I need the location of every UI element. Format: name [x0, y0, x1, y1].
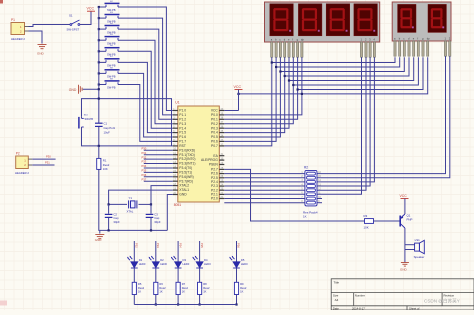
capacitor C1 Cap Pol1: [95, 123, 103, 124]
power ground at crystal circuit: [95, 235, 104, 239]
svg-text:Res2: Res2: [138, 286, 145, 290]
push button S9 SW-PB: [105, 81, 120, 85]
svg-text:P32: P32: [142, 155, 147, 159]
wire button S7 to U1 P1.5: [118, 62, 173, 132]
wire button S6 to U1 P1.4: [118, 51, 173, 128]
svg-text:P31: P31: [45, 161, 50, 165]
wire display1 pin4 to U1 P0.4: [224, 57, 284, 132]
junction RST line at bus: [98, 145, 100, 147]
junction bus at button S4: [98, 28, 100, 30]
display DS1 (4-digit 7-segment) digit 1 digit window: [270, 4, 294, 36]
crystal Y1 XTAL: [129, 200, 137, 208]
power ground at speaker: [401, 263, 409, 267]
svg-text:Res2: Res2: [240, 286, 247, 290]
svg-text:LED0: LED0: [183, 262, 190, 266]
wire RST line to U1 RST pin: [99, 145, 173, 147]
junction bus at GND feed: [98, 88, 100, 90]
wire LED D3 to resistor R7: [177, 268, 179, 282]
wire pack R2 to display1 common 1: [317, 57, 362, 194]
junction bus at button S7: [98, 61, 100, 63]
wire P1 pin1 to switch S1: [29, 25, 71, 27]
svg-text:GND: GND: [69, 88, 77, 92]
svg-text:S1: S1: [69, 14, 73, 18]
svg-text:10uF: 10uF: [104, 130, 111, 134]
svg-text:1K: 1K: [303, 215, 307, 219]
svg-text:LED0: LED0: [160, 262, 167, 266]
svg-text:P3.1(TXD): P3.1(TXD): [179, 153, 195, 157]
wire net stub P35: [144, 171, 173, 173]
svg-text:U1: U1: [175, 101, 179, 105]
junction bus at reset loop top: [98, 98, 100, 100]
wire pack R2 to display1 common 2: [317, 57, 366, 190]
svg-text:P1.5: P1.5: [179, 131, 186, 135]
svg-text:P3.3(INT1): P3.3(INT1): [179, 162, 195, 166]
svg-text:P30: P30: [142, 147, 147, 151]
svg-text:R7: R7: [182, 282, 186, 286]
speaker LS1: [415, 240, 425, 253]
push button S3 SW-PB: [105, 15, 120, 19]
svg-text:P3.0(RXD): P3.0(RXD): [179, 148, 195, 152]
wire crystal right lead: [139, 203, 152, 205]
wire display1 pin5 to U1 P0.3: [224, 57, 289, 128]
svg-text:P1.7: P1.7: [179, 140, 186, 144]
wire branch to display2 pin6: [293, 57, 418, 85]
svg-text:P3.4(T0): P3.4(T0): [179, 166, 192, 170]
wire net stub P37: [144, 180, 173, 182]
svg-text:P33: P33: [142, 160, 147, 164]
wire VCC stem to U1 VCC row: [238, 90, 240, 111]
svg-text:1K: 1K: [240, 289, 243, 293]
svg-text:8051: 8051: [174, 203, 182, 207]
svg-text:R3: R3: [364, 214, 368, 218]
push button S6 SW-PB: [105, 48, 120, 52]
junction display1 pin3 branch: [279, 70, 281, 72]
LED D3: [171, 256, 182, 268]
LED D1: [127, 256, 138, 268]
svg-text:PNP: PNP: [407, 218, 413, 222]
svg-text:1K: 1K: [203, 289, 206, 293]
junction bus at button S6: [98, 50, 100, 52]
junction display1 pin7 branch: [297, 88, 299, 90]
svg-text:XTAL2: XTAL2: [179, 184, 189, 188]
bottom-left pink artifact: [0, 301, 7, 306]
transistor Q1 PNP: [400, 214, 405, 228]
push button S2 SW-PB: [105, 3, 120, 7]
wire resistor R5 to rail: [133, 295, 135, 305]
svg-text:P0.4: P0.4: [211, 131, 218, 135]
wire U1 VCC pin to VCC stem: [224, 110, 238, 112]
P2 pin stubs: [28, 159, 32, 165]
svg-text:GND: GND: [400, 268, 408, 272]
wire branch to display2 pin5: [289, 57, 414, 80]
svg-text:Size: Size: [333, 293, 339, 297]
connector P1: [11, 23, 25, 35]
wire display1 pin2 to U1 P0.6: [224, 57, 276, 141]
U1 pin names: [179, 109, 218, 201]
wire bus to button S6 left: [99, 50, 106, 52]
wire display1 pin1 to U1 P0.7: [224, 57, 271, 146]
svg-text:P2: P2: [16, 151, 20, 155]
wire net stub P36: [144, 176, 173, 178]
wire R1 to ground rail: [99, 169, 100, 230]
wire XTAL1 to crystal left node: [109, 190, 173, 204]
svg-text:P2.0: P2.0: [211, 197, 218, 201]
wire switch S1 to VCC: [80, 11, 91, 24]
svg-text:P1.6: P1.6: [179, 135, 186, 139]
svg-text:SW-SPST: SW-SPST: [67, 28, 80, 32]
svg-text:D4: D4: [204, 258, 208, 262]
svg-text:P33: P33: [156, 243, 160, 248]
svg-text:SW-PB: SW-PB: [85, 117, 94, 121]
P1 pin stubs: [25, 27, 29, 32]
resistor R7 Res2: [176, 282, 180, 294]
wire resistor R6 to rail: [155, 295, 157, 305]
junction bus at button S9: [98, 83, 100, 85]
push button S5 SW-PB: [105, 37, 120, 41]
wire branch to display2 pin3: [280, 57, 404, 71]
wire crystal left lead: [109, 203, 127, 205]
wire GND arrow to bus: [83, 88, 99, 90]
capacitor C3 Cap 30pF: [146, 214, 154, 215]
svg-text:P1.3: P1.3: [179, 122, 186, 126]
svg-text:Revision: Revision: [444, 293, 455, 297]
svg-text:VCC: VCC: [211, 109, 219, 113]
junction crystal left node: [108, 203, 110, 205]
display DS1 (4-digit 7-segment) digit 2 digit window: [298, 4, 322, 36]
svg-text:VCC: VCC: [234, 85, 242, 89]
U1 pin stubs: [173, 111, 225, 199]
wire U1 P2 row to pack R2 pin8: [224, 202, 305, 204]
wire U1 P2 row to pack R2 pin5: [224, 189, 305, 191]
svg-text:P0.2: P0.2: [211, 122, 218, 126]
svg-text:Speaker: Speaker: [414, 255, 425, 259]
switch S1 SW-SPST: [70, 20, 80, 25]
U1 pin numbers: [173, 108, 224, 199]
wire net stub P33: [144, 163, 173, 165]
wire LED common rail: [134, 304, 236, 306]
wire Q1 collector down to ground node: [404, 228, 406, 263]
svg-text:P1.4: P1.4: [179, 126, 186, 130]
svg-text:Y1: Y1: [129, 196, 133, 200]
wire bus to button S9 left: [99, 84, 106, 86]
svg-text:R9: R9: [240, 282, 244, 286]
capacitor C2 Cap 30pF: [105, 214, 113, 215]
svg-text:CSDN @白苏英Y: CSDN @白苏英Y: [424, 298, 460, 305]
svg-text:10K: 10K: [364, 226, 369, 230]
svg-text:VCC: VCC: [87, 7, 95, 11]
wire pack R2 pin15 stub: [317, 198, 322, 200]
svg-text:P0.6: P0.6: [211, 140, 218, 144]
svg-text:LED0: LED0: [241, 262, 248, 266]
wire P2 pin2 net P31: [32, 164, 54, 166]
wire LED D1 to resistor R5: [133, 268, 135, 282]
svg-text:2014-8-17: 2014-8-17: [352, 306, 365, 310]
junction display1 pin4 branch: [284, 75, 286, 77]
svg-text:A4: A4: [335, 298, 339, 302]
wire net stub P32: [144, 158, 173, 160]
wire U1 P2 row to pack R2 pin1: [224, 173, 305, 175]
wire VCC to Q1 emitter: [404, 199, 406, 215]
junction bus at button S8: [98, 72, 100, 74]
power VCC symbol at Q1: [401, 198, 409, 200]
svg-text:P31: P31: [142, 151, 147, 155]
wire button S3 to U1 P1.1: [118, 18, 173, 115]
svg-text:P36: P36: [142, 173, 147, 177]
wire LED D5 to resistor R9: [236, 268, 238, 282]
wire U1 P2 row to pack R2 pin3: [224, 181, 305, 183]
resistor R8 Res2: [198, 282, 202, 294]
svg-text:C1: C1: [104, 122, 108, 126]
svg-text:GND: GND: [95, 238, 103, 242]
wire P1 pin2 to GND: [29, 31, 43, 44]
wire to speaker pin 1: [405, 244, 415, 246]
svg-text:GND: GND: [37, 52, 45, 56]
svg-text:P3.5(T1): P3.5(T1): [179, 171, 192, 175]
wire net P32 to LED D1: [133, 241, 135, 262]
wire display1 pin6 to U1 P0.2: [224, 57, 293, 124]
svg-text:10K: 10K: [103, 167, 108, 171]
svg-text:30pF: 30pF: [113, 220, 120, 224]
wire crystal right node to C3: [150, 204, 152, 213]
connector P2: [16, 156, 29, 169]
resistor R3: [365, 219, 374, 224]
junction display1 pin6 branch: [292, 84, 294, 86]
push button S8 SW-PB: [105, 70, 120, 74]
svg-text:Number: Number: [355, 293, 365, 297]
junction LED rail at D5: [235, 303, 237, 305]
wire button S5 to U1 P1.3: [118, 40, 173, 124]
wire reset net to RST pin column: [99, 99, 172, 146]
wire button S9 to U1 P1.7: [118, 85, 173, 142]
svg-text:P0.7: P0.7: [211, 144, 218, 148]
LED D4: [192, 256, 203, 268]
wire display1 pin7 to U1 P0.1: [224, 57, 297, 119]
junction display1 pin5 branch: [288, 79, 290, 81]
resistor R5 Res2: [132, 282, 136, 294]
junction VCC rail at VCC stem: [237, 93, 239, 95]
power VCC symbol at U1: [235, 89, 243, 91]
svg-text:XTAL: XTAL: [127, 210, 134, 214]
wire pack R2 pin9 to display2 common 1: [317, 56, 446, 173]
svg-text:P0.3: P0.3: [211, 126, 218, 130]
display DS1 (4-digit 7-segment) digit 4 digit window: [354, 4, 378, 36]
wire reset loop top: [82, 99, 99, 117]
resistor R6 Res2: [154, 282, 158, 294]
wire VCC rail to display2 pin8: [239, 57, 428, 94]
svg-text:P0.1: P0.1: [211, 117, 218, 121]
svg-text:R2: R2: [304, 166, 308, 170]
wire resistor R9 to rail: [236, 295, 238, 305]
push button S10 SW-PB (reset, sideways): [79, 117, 84, 129]
power VCC symbol top-left: [87, 10, 95, 12]
svg-text:SW-PB: SW-PB: [107, 86, 116, 90]
wire bus to button S8 left: [99, 72, 106, 74]
junction display1 pin8 on VCC rail: [301, 93, 303, 95]
wire reset button to RST line: [82, 127, 99, 146]
svg-text:P3.6(WR): P3.6(WR): [179, 175, 193, 179]
junction LED rail at D3: [177, 303, 179, 305]
junction display1 pin2 branch: [275, 66, 277, 68]
wire U1 P2 row to pack R2 pin2: [224, 177, 305, 179]
svg-text:LED0: LED0: [204, 262, 211, 266]
wire XTAL2 down to crystal right node: [151, 186, 173, 205]
display DS1 (4-digit 7-segment) pin labels: [271, 37, 376, 41]
svg-text:PSEN: PSEN: [209, 163, 219, 167]
svg-text:LED0: LED0: [139, 262, 146, 266]
svg-text:P3.7(RD): P3.7(RD): [179, 179, 193, 183]
power ground arrow (button common): [79, 85, 83, 94]
svg-text:P32: P32: [135, 243, 139, 248]
R2 pin numbers: [301, 172, 321, 203]
svg-text:1K: 1K: [138, 289, 141, 293]
junction LED rail at D2: [155, 303, 157, 305]
svg-text:HEADER 2: HEADER 2: [15, 171, 29, 175]
svg-text:D1: D1: [139, 258, 143, 262]
wire bus to button S3 left: [99, 17, 106, 19]
wire U1 GND pin to ground rail: [167, 195, 173, 231]
junction bus at button S3: [98, 17, 100, 19]
push button S4 SW-PB: [105, 26, 120, 30]
wire display1 pin8 to U1 P0.0: [224, 57, 302, 115]
wire button S4 to U1 P1.2: [118, 29, 173, 119]
display DS1 (4-digit 7-segment) digit 3 digit window: [326, 4, 350, 36]
svg-text:1K: 1K: [159, 289, 162, 293]
wire bus to button S2 left: [99, 6, 106, 8]
wire pack R2 to display1 common 3: [317, 57, 370, 186]
wire bus to button S7 left: [99, 61, 106, 63]
wire U1 P2 row to pack R2 pin7: [224, 198, 305, 200]
junction display1 pin1 branch: [271, 61, 273, 63]
wire pack R2 to display1 common 4: [317, 57, 374, 182]
wire branch to display2 pin2: [276, 57, 400, 67]
svg-text:R5: R5: [138, 282, 142, 286]
svg-text:P1.2: P1.2: [179, 117, 186, 121]
wire crystal left node to C2: [108, 204, 110, 213]
wire C3 to ground rail: [150, 218, 152, 230]
svg-text:Res2: Res2: [203, 286, 210, 290]
svg-text:P35: P35: [200, 243, 204, 248]
svg-text:ALE/PROG: ALE/PROG: [201, 158, 218, 162]
resistor R1 Res2: [97, 158, 101, 169]
wire U1 P2.7 to R3 (speaker drive): [224, 169, 364, 221]
svg-text:30pF: 30pF: [154, 220, 161, 224]
display DS1 (4-digit 7-segment) pins: [271, 42, 376, 57]
svg-text:Sheet of: Sheet of: [409, 306, 420, 310]
wire resistor R7 to rail: [177, 295, 179, 305]
junction bus at button S2: [98, 6, 100, 8]
svg-text:R8: R8: [203, 282, 207, 286]
svg-text:P3.2(INT0): P3.2(INT0): [179, 157, 195, 161]
wire button S8 to U1 P1.6: [118, 73, 173, 137]
wire branch to display2 pin1: [272, 57, 395, 62]
svg-text:Cap Pol1: Cap Pol1: [104, 126, 116, 130]
wire U1 P2 row to pack R2 pin4: [224, 185, 305, 187]
wire net P33 to LED D2: [155, 241, 157, 262]
wire C1 to RST line: [98, 127, 100, 146]
display DS2 (2-digit 7-segment) digit 1 digit window: [398, 4, 416, 32]
svg-text:P35: P35: [142, 169, 147, 173]
resistor network R2 Res Pack4: [305, 170, 317, 206]
wire net P35 to LED D4: [199, 241, 201, 262]
svg-text:P34: P34: [142, 164, 147, 168]
resistor R9 Res2: [234, 282, 238, 294]
svg-text:P0.5: P0.5: [211, 135, 218, 139]
wire reset button top stub: [81, 116, 83, 118]
svg-text:P0.0: P0.0: [211, 113, 218, 117]
junction LED rail at D4: [199, 303, 201, 305]
junction ground rail at C3: [150, 229, 152, 231]
svg-text:D2: D2: [160, 258, 164, 262]
svg-text:HEADER 2: HEADER 2: [11, 37, 25, 41]
svg-text:D5: D5: [241, 258, 245, 262]
svg-text:XTAL1: XTAL1: [179, 188, 189, 192]
display DS2 (2-digit 7-segment) body: [392, 2, 451, 41]
power ground at P1: [38, 45, 47, 49]
svg-text:P1.0: P1.0: [179, 109, 186, 113]
svg-text:Res2: Res2: [182, 286, 189, 290]
wire bus to button S4 left: [99, 28, 106, 30]
wire C2 to ground rail: [108, 218, 110, 230]
svg-text:P1: P1: [11, 18, 15, 22]
wire LED D4 to resistor R8: [199, 268, 201, 282]
svg-text:P34: P34: [178, 243, 182, 248]
svg-text:Title: Title: [334, 281, 340, 285]
wire net P36 to LED D5: [236, 241, 238, 262]
title block: [331, 279, 474, 310]
wire P2 pin1 net P30: [32, 158, 55, 160]
svg-text:RST: RST: [179, 144, 186, 148]
push button S7 SW-PB: [105, 59, 120, 63]
wire pack R2 pin10 to display2 common 2: [317, 56, 450, 178]
svg-text:P30: P30: [46, 155, 51, 159]
wire RST line down to R1: [98, 146, 100, 159]
wire button S2 to U1 P1.0: [118, 7, 173, 111]
junction crystal right node: [150, 203, 152, 205]
wire bus to button S5 left: [99, 39, 106, 41]
wire branch to display2 pin4: [285, 57, 409, 76]
svg-text:P1.1: P1.1: [179, 113, 186, 117]
svg-text:Res2: Res2: [159, 286, 166, 290]
corner watermark mark: [0, 0, 3, 4]
svg-text:VCC: VCC: [400, 194, 408, 198]
wire branch to display2 pin7: [298, 57, 423, 89]
svg-text:R6: R6: [159, 282, 163, 286]
junction bus at button S5: [98, 39, 100, 41]
display DS2 (2-digit 7-segment) digit 2 digit window: [428, 4, 446, 32]
wire LED D2 to resistor R6: [155, 268, 157, 282]
wire net P34 to LED D3: [177, 241, 179, 262]
wire ground rail: [100, 229, 168, 231]
LED D2: [149, 256, 160, 268]
wire display1 pin3 to U1 P0.5: [224, 57, 280, 137]
junction ground rail at C2: [108, 229, 110, 231]
display DS2 (2-digit 7-segment) pin labels: [394, 36, 451, 40]
wire resistor R8 to rail: [199, 295, 201, 305]
svg-text:P37: P37: [142, 177, 147, 181]
LED D5: [229, 256, 240, 268]
display DS1 (4-digit 7-segment) body: [265, 2, 380, 42]
svg-text:GND: GND: [179, 193, 187, 197]
svg-text:P36: P36: [237, 243, 241, 248]
display DS2 (2-digit 7-segment) pins: [394, 41, 451, 56]
wire ground rail to GND symbol: [99, 230, 101, 233]
wire net stub P34: [144, 167, 173, 169]
wire pack R2 pin16 stub: [317, 202, 322, 204]
svg-text:D3: D3: [183, 258, 187, 262]
U1 8051 microcontroller body: [178, 106, 220, 202]
svg-text:1K: 1K: [182, 289, 185, 293]
svg-text:LS1: LS1: [415, 238, 421, 242]
